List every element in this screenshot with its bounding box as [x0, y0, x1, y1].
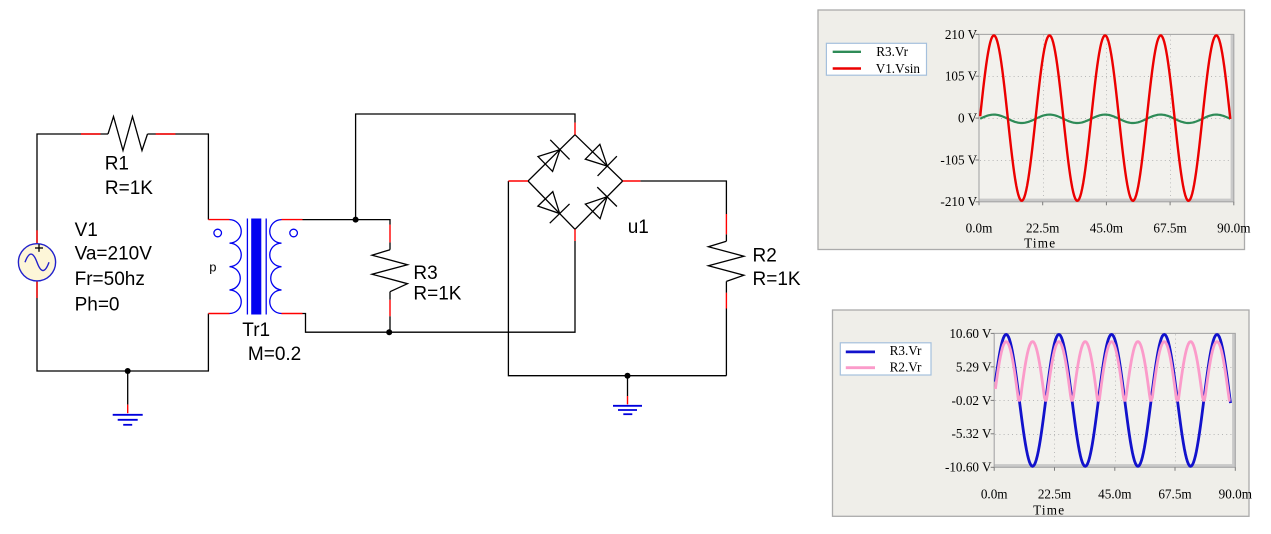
svg-text:R=1K: R=1K [105, 178, 153, 199]
pin stub R1 left [81, 133, 101, 135]
diode u1 bottom-right [583, 187, 617, 221]
svg-text:-210 V: -210 V [940, 194, 977, 209]
wire R3 upper black segment [389, 242, 391, 249]
wire R3 lower black segments [389, 292, 391, 300]
svg-text:67.5m: 67.5m [1153, 221, 1187, 236]
junction node V1 ground rail [125, 368, 131, 374]
svg-text:-10.60 V: -10.60 V [945, 460, 992, 475]
junction node R3 bottom [386, 329, 392, 335]
wire secondary top to R3 node [303, 220, 391, 225]
pin stub ground right [627, 396, 629, 404]
svg-text:105 V: 105 V [945, 69, 978, 84]
oscilloscope panel bottom [833, 310, 1250, 516]
transformer polarity dot primary [214, 229, 222, 237]
svg-text:0 V: 0 V [958, 111, 978, 126]
pin stub transformer primary bottom [208, 313, 229, 315]
top plot gridlines [980, 35, 1231, 198]
transformer polarity dot secondary [290, 229, 298, 237]
svg-text:Va=210V: Va=210V [75, 244, 153, 265]
voltage source V1 [18, 244, 55, 281]
wire R1 right to transformer primary top [148, 134, 209, 220]
svg-text:Ph=0: Ph=0 [75, 295, 120, 316]
svg-text:R2: R2 [753, 246, 777, 267]
svg-text:R2.Vr: R2.Vr [890, 360, 922, 375]
svg-text:u1: u1 [628, 217, 649, 238]
ground symbol left [113, 415, 143, 425]
wire V1 bottom to ground rail [37, 281, 208, 371]
pin stub V1 bottom [36, 281, 38, 298]
svg-text:22.5m: 22.5m [1038, 487, 1072, 502]
diode u1 top-left [536, 140, 570, 174]
svg-text:Fr=50hz: Fr=50hz [75, 269, 145, 290]
svg-text:5.29 V: 5.29 V [956, 359, 992, 374]
svg-text:90.0m: 90.0m [1219, 487, 1253, 502]
wire top-left from V1 to R1 [37, 134, 108, 244]
top plot y ticks and labels [940, 27, 979, 209]
resistor R1 [108, 117, 148, 151]
pin stub bridge top [574, 123, 576, 135]
pin stub R1 right [156, 133, 176, 135]
svg-text:Time: Time [1033, 502, 1065, 517]
diode u1 bottom-left [535, 189, 569, 223]
svg-text:-5.32 V: -5.32 V [952, 426, 993, 441]
top plot trace V1.Vsin red [980, 35, 1230, 200]
bottom plot trace R3.Vr blue [995, 334, 1230, 466]
svg-text:Tr1: Tr1 [242, 320, 270, 341]
wire ground stem right [627, 376, 629, 396]
svg-text:0.0m: 0.0m [981, 487, 1008, 502]
junction node ground right [625, 373, 631, 379]
svg-text:0.0m: 0.0m [966, 221, 993, 236]
svg-text:-105 V: -105 V [940, 152, 977, 167]
svg-text:M=0.2: M=0.2 [248, 344, 301, 365]
top plot legend [826, 43, 926, 76]
svg-text:210 V: 210 V [945, 27, 978, 42]
svg-text:22.5m: 22.5m [1026, 221, 1060, 236]
svg-text:67.5m: 67.5m [1158, 487, 1192, 502]
resistor R3 [372, 250, 408, 292]
pin stub transformer primary top [208, 219, 229, 221]
svg-text:90.0m: 90.0m [1217, 221, 1251, 236]
pin stub R3 top [389, 225, 391, 243]
resistor R2 [708, 241, 744, 281]
svg-text:45.0m: 45.0m [1090, 221, 1124, 236]
wire R2 bottom [725, 309, 727, 376]
pin stub R2 top [725, 214, 727, 234]
junction node secondary top [353, 217, 359, 223]
svg-text:R3: R3 [413, 263, 437, 284]
svg-text:-0.02 V: -0.02 V [952, 393, 993, 408]
svg-text:R1: R1 [105, 153, 129, 174]
bottom plot trace R2.Vr pink [995, 342, 1230, 401]
pin stub V1 top [36, 230, 38, 243]
pin stub transformer secondary top [282, 219, 303, 221]
diode u1 top-right [583, 142, 617, 176]
svg-text:Time: Time [1024, 236, 1056, 251]
oscilloscope panel top [818, 10, 1245, 250]
svg-text:V1: V1 [75, 220, 98, 241]
pin stub ground left [127, 405, 129, 414]
svg-text:V1.Vsin: V1.Vsin [876, 61, 921, 76]
svg-text:R3.Vr: R3.Vr [876, 44, 908, 59]
transformer Tr1 core [247, 219, 266, 315]
bridge u1 diamond [528, 135, 623, 230]
transformer Tr1 secondary winding [270, 220, 282, 314]
wire bridge left to ground rail right [508, 181, 726, 376]
bottom plot legend [840, 343, 931, 375]
svg-text:R=1K: R=1K [413, 283, 461, 304]
svg-text:10.60 V: 10.60 V [949, 326, 992, 341]
pin stub bridge right [623, 180, 641, 182]
svg-text:R=1K: R=1K [753, 269, 801, 290]
svg-text:45.0m: 45.0m [1098, 487, 1132, 502]
top plot x ticks and labels [966, 202, 1252, 236]
bottom plot x ticks and labels [981, 467, 1253, 501]
top plot trace R3.Vr green [980, 115, 1230, 123]
pin stub transformer secondary bottom [282, 313, 303, 315]
wire secondary bottom rail to bridge bottom [303, 241, 576, 332]
pin stub bridge left [508, 180, 528, 182]
wire node to bridge top [356, 114, 575, 220]
svg-text:p: p [209, 260, 216, 275]
wire ground stem left [127, 371, 129, 405]
ground symbol right [613, 406, 642, 414]
pin stub R3 bottom [389, 300, 391, 316]
bottom plot y ticks and labels [945, 326, 994, 475]
transformer Tr1 primary winding [230, 220, 242, 314]
pin stub R2 bottom [725, 293, 727, 309]
pin stub bridge bottom [574, 229, 576, 241]
wire bridge right to R2 [640, 181, 726, 214]
bottom plot gridlines [995, 334, 1232, 464]
svg-text:R3.Vr: R3.Vr [890, 343, 922, 358]
